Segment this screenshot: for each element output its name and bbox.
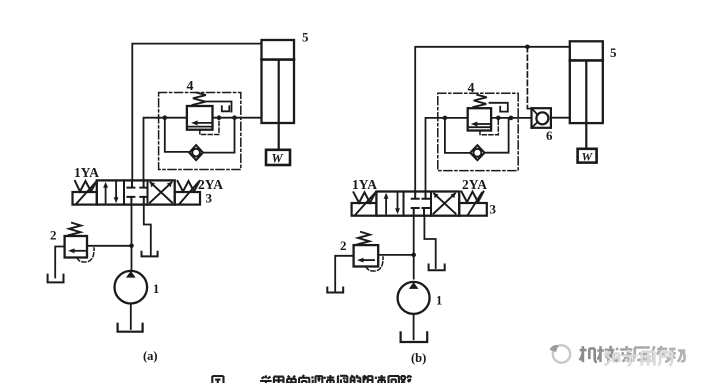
svg-text:W: W (582, 150, 594, 164)
svg-text:5: 5 (610, 45, 617, 60)
svg-text:(b): (b) (411, 351, 426, 365)
svg-text:1: 1 (153, 282, 159, 296)
svg-text:5: 5 (302, 30, 309, 45)
svg-text:4: 4 (468, 81, 475, 96)
svg-text:1: 1 (436, 294, 442, 308)
svg-text:3: 3 (206, 191, 213, 206)
svg-text:6: 6 (546, 128, 553, 143)
svg-text:3: 3 (490, 202, 497, 217)
svg-text:2: 2 (50, 228, 57, 243)
svg-text:2YA: 2YA (462, 177, 487, 192)
svg-text:1YA: 1YA (74, 165, 99, 180)
svg-text:4: 4 (187, 79, 194, 94)
svg-text:(a): (a) (143, 349, 158, 363)
svg-text:W: W (272, 152, 284, 166)
svg-text:1YA: 1YA (352, 177, 377, 192)
svg-text:2: 2 (340, 238, 347, 253)
